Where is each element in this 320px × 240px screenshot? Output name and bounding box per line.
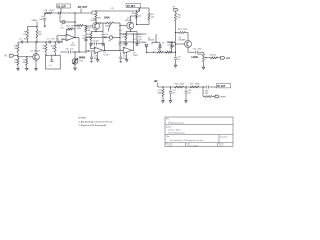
resistor R4 bias horizontal [75, 25, 86, 31]
wire Q1 emitter [35, 60, 37, 66]
svg-text:470: 470 [122, 36, 125, 38]
capacitor C11 bypass [136, 32, 142, 43]
ground small below C17b [120, 60, 123, 62]
probe TP1 [108, 36, 113, 43]
svg-text:File:: File: [166, 119, 170, 121]
resistor R24 out [210, 54, 218, 58]
net flag OUT [221, 56, 232, 59]
svg-text:R13: R13 [91, 14, 94, 16]
transistor Q1 [31, 51, 41, 61]
wire U2A output row [103, 49, 124, 51]
net flag +9V [154, 81, 158, 87]
title block title row [166, 135, 228, 142]
svg-text:4n7: 4n7 [177, 59, 180, 61]
svg-text:9V_OUT: 9V_OUT [58, 6, 67, 8]
svg-text:47u: 47u [139, 36, 142, 38]
capacitor C19 series [203, 86, 214, 93]
wire signal row y52 [60, 51, 86, 52]
svg-text:R28: R28 [205, 93, 208, 95]
svg-text:100n: 100n [205, 90, 209, 92]
ground below R14 [90, 42, 93, 46]
ground below Q1 emitter [35, 67, 38, 71]
label TREBLE [167, 42, 176, 46]
wire col x120 [119, 23, 120, 51]
wire top feedback y34 [120, 33, 146, 34]
svg-text:9V_FILT: 9V_FILT [127, 6, 136, 8]
wire col x86 coupling [85, 25, 86, 51]
svg-text:100R: 100R [49, 10, 54, 12]
capacitor C9 coupling [82, 35, 88, 40]
capacitor C16 minus leg U2A [90, 52, 98, 60]
svg-text:10k: 10k [177, 17, 180, 19]
op-amp U1A [66, 34, 75, 47]
wire into U2A [86, 50, 94, 52]
capacitor C15 coupling [134, 39, 142, 44]
svg-text:VREF: VREF [220, 96, 226, 98]
wire Q3 collector [111, 8, 137, 22]
ground below U2A [96, 58, 99, 62]
wire wiper out [208, 57, 211, 59]
net flag 12V_OUT [78, 7, 88, 13]
transistor Q5 [179, 37, 192, 47]
wire U2B output leg [132, 34, 134, 51]
svg-text:47u: 47u [172, 93, 175, 95]
wire LEVEL bottom [203, 62, 205, 66]
svg-text:10k: 10k [98, 17, 101, 19]
svg-text:R27: R27 [190, 83, 193, 85]
svg-text:DRIVE: DRIVE [79, 58, 86, 60]
ground below C17 [169, 99, 172, 103]
pot LEVEL [197, 53, 208, 62]
resistor R9 [42, 42, 47, 55]
wire U1A plus input [57, 36, 66, 42]
transistor Q3 [125, 18, 134, 30]
ground below C18 [185, 99, 188, 103]
wire pot to col [113, 22, 120, 24]
capacitor C14 on col [119, 42, 126, 46]
junction into U2A [88, 50, 89, 51]
svg-text:IN: IN [5, 56, 8, 58]
svg-text:TL072: TL072 [103, 55, 108, 57]
svg-text:R26: R26 [175, 83, 178, 85]
pot TREBLE [171, 42, 175, 53]
resistor R26 series [175, 83, 185, 88]
wire 9V rail [44, 11, 139, 13]
svg-text:100R: 100R [157, 93, 162, 95]
svg-text:1M: 1M [52, 48, 55, 50]
title block file row [166, 119, 184, 125]
ground stub U2B [126, 53, 128, 59]
svg-text:47p: 47p [122, 44, 125, 46]
wire tone row [146, 52, 176, 53]
resistor R11 feedback [67, 26, 75, 30]
capacitor C18 [185, 87, 192, 99]
wire to LEVEL [198, 52, 203, 54]
resistor R22 [175, 13, 181, 33]
svg-text:1u0: 1u0 [82, 38, 85, 40]
svg-text:General Engineering: General Engineering [168, 133, 184, 135]
label DRIVE [79, 58, 86, 63]
net flag 9V_OUT [57, 4, 71, 14]
capacitor C17b minus leg U2B [119, 52, 127, 60]
net flag VREF out [215, 95, 226, 98]
svg-text:<07-Jan-2023>: <07-Jan-2023> [187, 144, 198, 147]
wire U1A output [74, 38, 79, 53]
svg-text:100n: 100n [24, 38, 28, 40]
ground stub U2A [97, 53, 99, 59]
net flag IN [5, 54, 14, 58]
net flag 9VF arrow [172, 6, 178, 13]
diode D1 [145, 37, 154, 52]
resistor R6 lower [14, 57, 19, 67]
wire Q5 emitter [188, 48, 195, 53]
wire bias y22 [60, 21, 76, 22]
ground below R6 [17, 67, 20, 71]
svg-text:1u: 1u [49, 65, 51, 67]
svg-text:A100k: A100k [197, 53, 202, 56]
wire Q2 emitter [91, 30, 103, 33]
svg-text:+9V: +9V [154, 81, 158, 83]
svg-text:1u0: 1u0 [139, 39, 142, 41]
capacitor C7 bias [61, 20, 66, 29]
resistor R1b [36, 30, 42, 43]
wire vref out [212, 96, 215, 98]
wire Q5 base [176, 43, 185, 45]
svg-text:D2: D2 [162, 42, 164, 44]
transistor Q2 [91, 18, 100, 30]
ground small below C16 [90, 60, 93, 62]
title block frame [165, 117, 233, 147]
svg-text:100R: 100R [195, 83, 200, 85]
svg-text:10u: 10u [61, 27, 64, 29]
svg-text:Q1 2N5457: Q1 2N5457 [31, 51, 41, 53]
svg-text:TL072: TL072 [133, 55, 138, 57]
wire Q3 emitter [126, 29, 137, 32]
resistor R17 feedback [148, 13, 154, 25]
ground below U2B [125, 58, 128, 62]
wire vref branch [203, 87, 205, 97]
diode D2 [159, 42, 165, 52]
ground below LEVEL [202, 66, 205, 70]
svg-text:1. Any R4 divider amount for 9: 1. Any R4 divider amount for 9V rails. [79, 120, 114, 123]
wire col x60 [59, 13, 61, 22]
svg-text:100k: 100k [105, 25, 109, 27]
wire probe row [86, 37, 121, 38]
ground below C11 [136, 42, 139, 46]
svg-text:2N5457: 2N5457 [125, 20, 132, 22]
resistor R28 vref [205, 93, 213, 97]
op-amp U2A [94, 47, 108, 57]
ground below C6 [44, 25, 47, 27]
resistor R10 [51, 42, 56, 55]
ground below R25 [162, 99, 165, 103]
wire U2A feedback rail [90, 44, 105, 51]
wire rail feedback [140, 8, 150, 13]
capacitor C10 bypass [102, 32, 108, 43]
capacitor C4 on rail [57, 38, 65, 43]
capacitor C17 [169, 87, 176, 99]
svg-text:10k: 10k [151, 17, 154, 19]
pot GAIN [105, 22, 113, 32]
svg-text:C8: C8 [66, 48, 68, 50]
svg-text:470k: 470k [183, 29, 187, 31]
ground below C12 [174, 64, 177, 68]
svg-text:39k: 39k [22, 62, 25, 64]
wire Q2 collector to pot [95, 22, 105, 31]
svg-text:Author:: Author: [166, 125, 172, 128]
svg-text:1 of 1: 1 of 1 [219, 145, 223, 147]
wire cap row y42 [120, 41, 146, 43]
svg-text:10k: 10k [23, 34, 26, 36]
capacitor C5 in box [49, 55, 53, 67]
capacitor C8 coupling [66, 48, 74, 53]
svg-text:R24 1k: R24 1k [210, 54, 216, 56]
ground below DRIVE pot [74, 66, 77, 70]
wire feedback return [136, 19, 149, 26]
svg-text:2. Based on LPD Smurf pedal.: 2. Based on LPD Smurf pedal. [79, 124, 107, 127]
ground below R7 [25, 67, 28, 71]
resistor R27 series [190, 83, 200, 88]
resistor R5 upper [14, 42, 19, 57]
svg-text:<1.0>: <1.0> [168, 144, 172, 147]
resistor R7 q1 base [22, 57, 27, 67]
box battery [45, 55, 60, 69]
wire power rail [158, 86, 204, 87]
svg-text:1N4148: 1N4148 [148, 40, 154, 42]
svg-text:100u: 100u [39, 19, 43, 21]
svg-text:R15: R15 [132, 13, 135, 15]
label LEVEL [192, 57, 200, 59]
resistor R3 on rail [45, 10, 55, 14]
svg-text:100R: 100R [179, 83, 184, 85]
resistor R21 tone [166, 51, 172, 53]
svg-text:C13 47p: C13 47p [92, 41, 99, 43]
label GAIN [104, 16, 110, 27]
capacitor C2 on rail [19, 38, 28, 43]
wire Q3 base [119, 25, 127, 32]
svg-text:10k: 10k [138, 15, 141, 17]
svg-text:1M: 1M [42, 48, 45, 50]
svg-text:100n: 100n [198, 49, 202, 51]
svg-text:C50k: C50k [79, 60, 83, 62]
capacitor C3 on rail [47, 38, 55, 43]
net flag VREF [32, 20, 38, 23]
svg-text:TP1: TP1 [108, 40, 111, 42]
svg-text:12V_OUT: 12V_OUT [78, 7, 88, 9]
ground below R16 [125, 42, 128, 46]
svg-text:2N5088: 2N5088 [179, 40, 186, 42]
wire top rail y42 [18, 41, 63, 42]
op-amp U2B [123, 47, 138, 57]
wire input [14, 56, 19, 58]
wire to OUT [218, 57, 221, 59]
svg-text:C15: C15 [134, 39, 137, 41]
title block author rows [166, 125, 184, 134]
svg-text:LEVEL: LEVEL [192, 57, 200, 59]
svg-text:9V_FILT: 9V_FILT [217, 86, 226, 88]
capacitor C16 output [193, 49, 202, 54]
title block values [168, 144, 224, 147]
wire vref divider [28, 23, 38, 30]
svg-text:1u0: 1u0 [70, 48, 73, 50]
capacitor C12 tone [174, 52, 181, 63]
wire col x75 [74, 12, 75, 29]
wire Q1 collector [35, 42, 37, 54]
svg-text:TL072: TL072 [70, 45, 75, 47]
resistor R12 bias [85, 27, 91, 32]
title block revision row [166, 143, 224, 146]
svg-text:Title:: Title: [166, 135, 170, 138]
notes text [79, 117, 114, 127]
svg-text:C16: C16 [193, 49, 196, 51]
svg-text:Chuck D. Bones: Chuck D. Bones [168, 129, 181, 131]
resistor R20 tone [157, 49, 163, 53]
wire U1A feedback [67, 29, 76, 38]
wire base Q1 [18, 56, 33, 57]
svg-text:R23: R23 [178, 29, 181, 31]
wire Q2 base [86, 25, 93, 27]
svg-text:1M: 1M [14, 62, 17, 64]
svg-text:85 sound built -- LPB boogie d: 85 sound built -- LPB boogie do fuzz mod [170, 139, 203, 142]
resistor R16 emitter [122, 32, 127, 43]
wire diode top [152, 34, 160, 44]
svg-text:GAIN: GAIN [104, 16, 110, 19]
svg-text:100k: 100k [77, 28, 81, 30]
svg-text:10k: 10k [167, 45, 170, 47]
wire U1A minus input [62, 39, 66, 42]
resistor R14 emitter [87, 32, 92, 43]
svg-text:LPB-Boogie-do-fuzz: LPB-Boogie-do-fuzz [168, 122, 184, 124]
resistor R1a [23, 30, 28, 43]
svg-text:47u: 47u [188, 93, 191, 95]
svg-text:47n: 47n [51, 38, 54, 40]
svg-text:1M: 1M [71, 26, 74, 28]
trimmer pot DRIVE [72, 58, 78, 66]
wire pot top [74, 52, 76, 58]
svg-text:NOTES:: NOTES: [79, 117, 87, 119]
svg-text:10k: 10k [39, 34, 42, 36]
svg-text:3k3: 3k3 [157, 49, 160, 51]
resistor R23 feedback [176, 29, 189, 34]
capacitor C13 feedback [92, 41, 99, 46]
net flag 9V_FILT top [126, 4, 141, 12]
diode D3 polarity [157, 87, 164, 99]
wire Q5 collector [187, 33, 189, 41]
resistor R15 collector [132, 10, 141, 18]
ground below C10 [102, 42, 105, 46]
svg-text:1M: 1M [14, 48, 17, 50]
svg-text:Document: Document [220, 135, 228, 138]
capacitor C6 [39, 13, 46, 25]
wire Q5 column [175, 32, 176, 52]
resistor R13 collector [91, 10, 100, 22]
svg-text:R11: R11 [67, 26, 70, 28]
net flag 9V_FILT out [214, 84, 231, 88]
